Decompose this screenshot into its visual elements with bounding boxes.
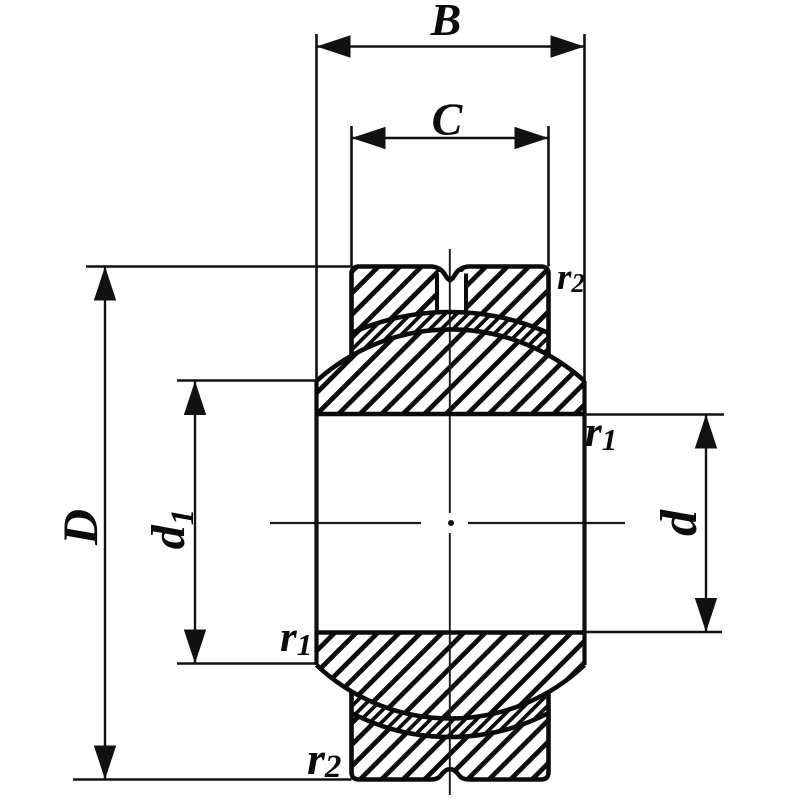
d arrow top bbox=[695, 415, 717, 449]
d extension line bottom bbox=[585, 631, 723, 633]
D arrow bottom bbox=[94, 746, 116, 780]
inner ring right face bbox=[582, 381, 586, 665]
dimension d1 line bbox=[194, 381, 196, 664]
outer ring outline top: left face, top face with groove notch, right face bbox=[352, 267, 549, 357]
center dot bbox=[448, 520, 454, 526]
dimension B line bbox=[317, 45, 585, 47]
B extension line left bbox=[315, 34, 318, 381]
centerline vertical bbox=[449, 249, 451, 795]
centerline horizontal bbox=[270, 522, 625, 524]
dimension d line bbox=[705, 415, 707, 633]
inner ring sphere arc bottom bbox=[317, 665, 585, 718]
B extension line right bbox=[583, 34, 586, 381]
D extension line bottom bbox=[73, 778, 352, 780]
liner crescent bottom (dense hatch) bbox=[352, 691, 549, 737]
dimension D line bbox=[104, 267, 106, 780]
d extension line top bbox=[585, 413, 725, 415]
B arrow left bbox=[317, 35, 351, 57]
liner crescent top (dense hatch) bbox=[352, 312, 549, 356]
outer ring top section (hatched) bbox=[352, 267, 549, 334]
inner ring left face bbox=[314, 381, 318, 665]
svg-text:D: D bbox=[52, 509, 108, 546]
B extension through bore bbox=[317, 414, 585, 633]
svg-text:C: C bbox=[432, 94, 464, 145]
inner ring bottom section (hatched) bbox=[317, 633, 585, 719]
lubrication hole void (white) bbox=[439, 272, 465, 312]
lubrication hole walls bbox=[437, 274, 466, 313]
inner ring sphere arc top bbox=[317, 329, 585, 381]
d arrow bottom bbox=[695, 598, 717, 632]
bore bottom line bbox=[317, 630, 585, 634]
d1 extension line bottom bbox=[177, 662, 317, 664]
B arrow right bbox=[551, 35, 585, 57]
D arrow top bbox=[94, 267, 116, 301]
outer ring inner sphere arc bottom bbox=[352, 713, 549, 737]
dimension C line bbox=[352, 137, 549, 139]
outer ring inner sphere arc top bbox=[352, 312, 549, 333]
C arrow left bbox=[352, 127, 386, 149]
svg-text:d: d bbox=[651, 509, 708, 536]
inner ring top section (hatched) bbox=[317, 329, 585, 414]
C extension line left bbox=[350, 126, 353, 267]
C arrow right bbox=[515, 127, 549, 149]
d1 arrow top bbox=[184, 381, 206, 415]
outer ring outline bottom: left face, bottom face with notch, right face bbox=[352, 691, 549, 780]
d1 extension line top bbox=[177, 379, 317, 381]
d1 arrow bottom bbox=[184, 630, 206, 664]
outer ring bottom section (hatched) bbox=[352, 713, 549, 780]
D extension line top bbox=[86, 265, 352, 267]
bore top line bbox=[317, 412, 585, 416]
C extension line right bbox=[547, 126, 550, 267]
svg-text:B: B bbox=[430, 0, 462, 45]
